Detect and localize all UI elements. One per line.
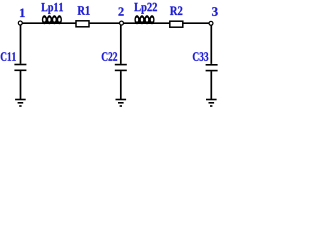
wire R1 to node2 <box>90 22 120 24</box>
ground under C33 <box>206 100 217 107</box>
label R1 <box>78 6 90 15</box>
resistor R2 <box>170 21 183 27</box>
label C22 <box>102 52 117 61</box>
wire C11 to ground <box>20 71 22 100</box>
capacitor C22 <box>115 65 127 71</box>
label node 1 <box>20 9 25 17</box>
wire node1 to R1 <box>22 22 76 24</box>
wire node2 down <box>120 25 122 64</box>
node 1 <box>18 21 22 25</box>
capacitor C33 <box>206 65 218 71</box>
wire R2 to node3 <box>183 22 209 24</box>
wire C33 to ground <box>210 71 212 99</box>
label node 2 <box>118 7 123 15</box>
inductor Lp11 <box>42 15 62 24</box>
label R2 <box>170 6 182 15</box>
wire node1 down <box>20 25 22 64</box>
label Lp22 <box>134 3 157 14</box>
label node 3 <box>212 7 218 16</box>
wire C22 to ground <box>120 71 122 99</box>
ground under C22 <box>116 100 127 107</box>
node 2 <box>120 21 124 25</box>
wire node2 to R2 <box>123 22 170 24</box>
label C11 <box>1 52 16 61</box>
ground under C11 <box>15 100 26 107</box>
wire node3 down <box>210 25 212 64</box>
label C33 <box>193 52 208 61</box>
resistor R1 <box>76 21 89 27</box>
label Lp11 <box>41 3 63 14</box>
capacitor C11 <box>14 65 26 71</box>
node 3 <box>209 21 213 25</box>
inductor Lp22 <box>134 15 154 24</box>
